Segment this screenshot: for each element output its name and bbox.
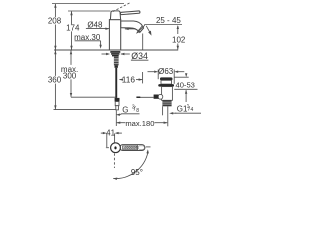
95 degree arc xyxy=(130,166,146,176)
svg-text:300: 300 xyxy=(63,71,77,80)
dim 41 xyxy=(101,132,104,134)
dim 174 extension line xyxy=(68,10,111,12)
svg-text:Ø48: Ø48 xyxy=(87,20,103,29)
dim Ø34 leader xyxy=(121,53,130,55)
dim max180 xyxy=(117,122,126,124)
top view body circle xyxy=(111,143,121,153)
top view lever divider xyxy=(137,145,139,150)
svg-text:4: 4 xyxy=(191,107,194,113)
svg-text:360: 360 xyxy=(48,76,62,85)
dim 41 extension lines xyxy=(106,134,108,148)
svg-text:max.180: max.180 xyxy=(125,119,154,128)
lever tip tick xyxy=(146,146,151,148)
svg-text:25 - 45: 25 - 45 xyxy=(156,16,181,25)
G 1 1/4 leader xyxy=(175,112,201,114)
drain threaded bottom xyxy=(162,100,171,106)
dim max300 bottom tick xyxy=(71,96,116,98)
drain ball joint xyxy=(158,94,163,99)
top view lever bar xyxy=(120,145,145,151)
G 3/8 leader xyxy=(121,113,139,115)
dim max300 arrow up xyxy=(70,50,72,54)
dim 116 extension line xyxy=(142,72,144,83)
dim 174 arrow down xyxy=(70,46,72,50)
dim Ø63 arrows xyxy=(148,71,155,73)
svg-text:116: 116 xyxy=(122,74,136,84)
drain side outlet xyxy=(154,95,159,99)
dim max300 vertical line xyxy=(70,50,72,65)
spout outlet extension line xyxy=(142,34,144,50)
svg-text:174: 174 xyxy=(66,24,80,33)
dim 174 arrow up xyxy=(70,11,72,15)
spout xyxy=(121,21,144,32)
drain body xyxy=(162,87,173,101)
drain flange band xyxy=(158,84,174,87)
drain plug top xyxy=(160,77,173,80)
drain tailpiece xyxy=(162,106,164,115)
stream arrow left xyxy=(138,25,145,32)
faucet body xyxy=(109,20,120,50)
dim 116 xyxy=(120,79,122,81)
threaded shank xyxy=(114,57,119,66)
lever raised (dashed) xyxy=(113,2,131,11)
dim Ø34 underline xyxy=(131,59,149,61)
dim Ø48 leader left xyxy=(86,28,109,30)
dim 208 arrow down xyxy=(54,46,56,50)
dim 360 arrow up xyxy=(54,50,56,54)
dim 40-53 vertical xyxy=(185,90,187,102)
dim 40-53 top tick xyxy=(174,76,189,78)
lever handle (side view) xyxy=(120,11,140,15)
dim Ø48 arrow right side xyxy=(125,28,136,30)
hose connector xyxy=(115,98,120,102)
dim max30 leader xyxy=(75,40,101,42)
mounting nut bands xyxy=(110,51,120,53)
svg-text:8: 8 xyxy=(136,108,139,114)
stream angle leader 25-45 xyxy=(144,24,182,26)
top view center dot xyxy=(114,146,116,149)
shank nipple xyxy=(115,65,118,67)
dim 360 bottom extension line xyxy=(54,109,116,111)
svg-text:40-53: 40-53 xyxy=(175,80,194,89)
dashed swing line xyxy=(113,153,115,168)
svg-text:208: 208 xyxy=(48,17,62,26)
dim 102 vertical xyxy=(177,26,179,34)
dim 208 vertical line xyxy=(54,4,56,17)
dim 40-53 underline xyxy=(174,88,197,90)
dim 360 vertical line xyxy=(54,50,56,76)
dim max300 arrow down xyxy=(70,93,72,97)
faucet cap xyxy=(110,11,120,20)
top view lever end inset xyxy=(138,146,144,149)
svg-text:95°: 95° xyxy=(131,168,143,177)
stream arrow right xyxy=(146,26,150,34)
dim 208 extension line top xyxy=(52,3,124,5)
dim 174 vertical line xyxy=(71,11,73,24)
svg-text:41: 41 xyxy=(106,129,115,138)
svg-text:Ø63: Ø63 xyxy=(158,67,174,76)
dim 208 arrow up xyxy=(54,4,56,8)
top view lever grip hatch xyxy=(122,146,136,150)
dim 360 arrow down xyxy=(54,105,56,109)
svg-text:G: G xyxy=(122,106,128,115)
supply hose xyxy=(115,68,117,98)
aerator line xyxy=(138,26,142,30)
pop-up rod xyxy=(137,96,154,98)
svg-text:Ø34: Ø34 xyxy=(131,51,148,61)
dim max180 extension lines xyxy=(115,110,117,126)
svg-text:102: 102 xyxy=(172,35,186,44)
deck / counter line xyxy=(54,49,178,51)
dim Ø63 extension lines xyxy=(157,70,159,80)
svg-text:max.30: max.30 xyxy=(74,33,101,42)
drain neck xyxy=(161,80,172,84)
